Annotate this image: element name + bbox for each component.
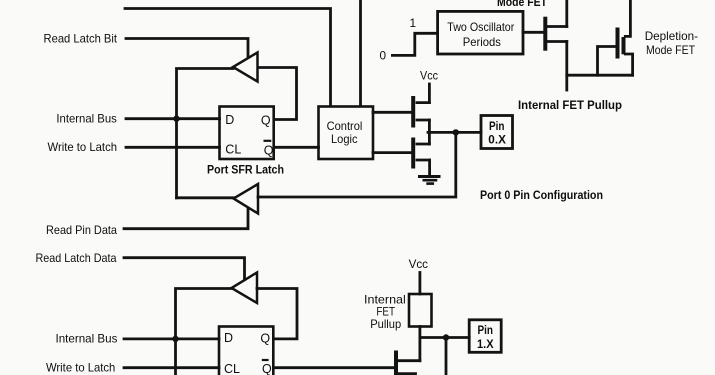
wire read pin data to U2 enable [124,210,248,229]
wire pin1 feedback down [445,338,448,375]
pin box Pin 0.X [481,116,513,149]
latch U3 Port SFR Latch box [220,107,274,160]
svg-text:Periods: Periods [463,35,501,49]
wire node to pin 1.X [420,336,469,339]
buffer U4 read latch data [232,273,258,304]
svg-text:Read Latch Bit: Read Latch Bit [44,32,118,46]
wire oscillator box output to Q4 gate [523,31,544,34]
svg-text:Internal FET Pullup: Internal FET Pullup [518,100,622,112]
svg-text:Read Latch Data: Read Latch Data [36,251,117,265]
buffer U1 read latch bit [233,53,258,82]
wire top rail to control logic [125,9,331,107]
wire latch Qbar to Q3 gate [274,366,395,369]
svg-text:CL: CL [224,362,240,375]
wire Q2 drain to output node [428,132,431,144]
wire pin feedback to U2 input [258,132,456,197]
svg-text:0: 0 [380,49,387,63]
svg-text:0.X: 0.X [488,135,506,147]
svg-text:Port SFR Latch: Port SFR Latch [207,165,284,177]
wire Q5 drain [625,0,630,36]
wire Vcc to pullup [418,273,421,295]
wire Q3 drain to pullup resistor [418,327,421,361]
transistor Q2 driver FET [411,140,415,167]
wire address/data input to control logic [359,0,362,106]
svg-text:Q: Q [261,113,271,127]
node output junction [453,129,459,135]
svg-text:Q: Q [262,362,272,375]
wire latch Qbar to control logic [274,146,319,149]
svg-text:CL: CL [225,143,241,157]
wire Vcc to Q1 drain [428,84,431,103]
svg-text:D: D [224,331,233,345]
wire 0 step input [392,33,437,55]
wire U1 input from latch Q [258,68,297,120]
svg-text:Depletion-: Depletion- [645,29,698,43]
svg-text:Control: Control [327,119,363,133]
wire Q5 source [625,54,632,75]
svg-text:Mode FET: Mode FET [497,0,547,9]
overbar Qbar lower [262,359,269,361]
transistor Q3 port1 driver FET [394,353,398,375]
transistor Q5 depletion FET gate bar [616,30,620,57]
svg-text:D: D [225,113,234,127]
box two oscillator periods [438,11,523,54]
svg-text:Read Pin Data: Read Pin Data [46,223,117,237]
svg-text:Port 0 Pin Configuration: Port 0 Pin Configuration [480,190,603,202]
svg-text:Q: Q [264,144,274,158]
ground [420,175,440,178]
wire Q5 gate tie to source rail [598,47,616,76]
svg-text:Vcc: Vcc [420,69,438,83]
svg-text:Two Oscillator: Two Oscillator [447,20,514,34]
svg-text:Pin: Pin [489,121,505,133]
svg-text:Pin: Pin [478,325,494,337]
junction internal bus [173,116,179,122]
wire source rail [567,74,633,77]
svg-text:Q: Q [260,332,270,346]
wire internal bus [126,117,220,120]
wire U1 output to internal bus vertical [177,69,234,198]
wire Q2 source to ground [428,160,431,175]
wire U4 output to internal bus vertical [176,289,232,375]
svg-text:Write to Latch: Write to Latch [48,140,118,154]
junction internal bus lower [172,336,178,342]
wire Q1 source to output node [428,120,431,132]
svg-text:Logic: Logic [331,132,358,146]
wire read latch data to U4 enable [124,258,245,280]
wire internal bus lower [124,337,219,340]
wire Read Latch Bit to U1 enable [126,39,248,58]
resistor internal FET pullup [409,294,432,327]
svg-text:1.X: 1.X [477,339,494,351]
wire U4 input from latch Q [257,289,297,339]
wire Q4 source down to rail [565,42,568,91]
svg-text:Mode FET: Mode FET [646,43,695,57]
pin box Pin 1.X [469,320,501,353]
svg-text:Internal Bus: Internal Bus [56,332,118,346]
svg-text:1: 1 [410,16,417,30]
wire U2 output [177,196,234,199]
svg-text:Pullup: Pullup [370,317,401,331]
control logic U6 box [319,107,374,160]
wire control logic upper output to Q1 gate [373,111,413,114]
junction node pin1 [443,334,449,340]
wire control logic lower output to Q2 gate [373,151,413,154]
latch U5 box [219,327,273,375]
buffer U2 read pin data [234,184,259,214]
transistor Q1 pullup FET [411,98,415,126]
svg-text:Write to Latch: Write to Latch [46,361,115,375]
overbar Qbar [264,140,272,142]
wire write to latch lower [124,366,219,369]
svg-text:Internal Bus: Internal Bus [56,112,116,126]
wire Q4 drain up [565,0,568,27]
svg-text:Vcc: Vcc [409,257,428,271]
wire write to latch [126,146,220,149]
wire output node to pin box [428,131,481,134]
transistor Q4 enhancement FET [543,19,547,49]
wire Q3 source stub [398,372,416,375]
transistor Q5 channel bar [622,39,626,52]
